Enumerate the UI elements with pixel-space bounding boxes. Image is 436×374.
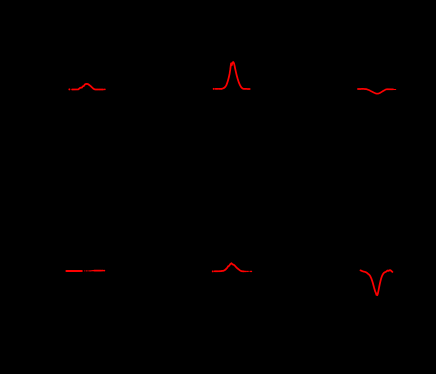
waveform 4 bottom-left: fade dot c	[87, 270, 88, 271]
waveform 1 top-left: right baseline dash	[99, 89, 101, 91]
waveform 4 bottom-left: fade dot b	[86, 270, 87, 271]
waveform 3 top-right: left baseline dash	[358, 88, 361, 90]
waveform 4 bottom-left: fade dot d	[89, 270, 90, 271]
waveform 5 bottom-middle: right dot b	[248, 271, 249, 272]
waveform 5 bottom-middle: small bump trace	[222, 263, 244, 271]
waveform 4 bottom-left: end marker dot	[103, 270, 105, 272]
waveform 2 top-middle: left baseline dash 2	[219, 88, 222, 90]
waveform 6 bottom-right: deep V notch trace	[361, 270, 393, 295]
waveform 3 top-right: end marker dot	[392, 88, 394, 90]
waveform 4 bottom-left: dim dash a	[90, 270, 91, 272]
waveform 2 top-middle: left baseline dash	[216, 88, 218, 90]
waveform 3 top-right: right dim dash	[394, 89, 396, 91]
waveform 5 bottom-middle: left baseline dash 2	[219, 270, 222, 272]
waveform 1 top-left: small positive bump, start marker dot	[68, 88, 70, 90]
waveform 1 top-left: right baseline dash 2	[101, 89, 103, 91]
waveform 4 bottom-left: dim dash b	[92, 270, 93, 272]
waveform 5 bottom-middle: end dash	[250, 270, 253, 272]
waveform 1 top-left: main bump trace	[72, 84, 98, 90]
waveform 3 top-right: shallow dip trace	[367, 89, 392, 93]
waveform 3 top-right: left baseline dash 3	[364, 88, 366, 90]
waveform 1 top-left: end marker dot	[104, 89, 106, 91]
waveform 5 bottom-middle: right dot a	[247, 271, 248, 272]
waveform 5 bottom-middle: left baseline dash	[215, 270, 218, 272]
waveform 2 top-middle: start marker dot	[213, 88, 215, 90]
waveform 3 top-right: left baseline dash 2	[362, 88, 364, 90]
waveform 5 bottom-middle: start marker dot	[212, 270, 214, 272]
waveform 4 bottom-left: thick flat baseline segment	[66, 270, 81, 272]
waveform 2 top-middle: tall sharp peak trace	[222, 62, 247, 89]
waveform 5 bottom-middle: right dash	[245, 270, 247, 272]
waveform 4 bottom-left: fade dot a	[84, 270, 85, 271]
waveform 4 bottom-left: right dash	[102, 270, 103, 272]
waveform 2 top-middle: right baseline dash	[247, 88, 249, 90]
waveform 4 bottom-left: solid right segment	[94, 270, 101, 272]
